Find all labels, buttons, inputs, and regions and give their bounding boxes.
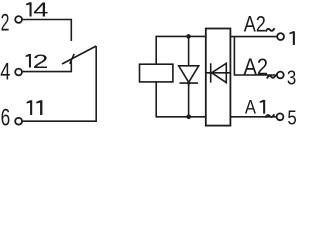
- tilde A2 terminal 3: [267, 75, 276, 78]
- suppressor module box: [206, 29, 231, 126]
- svg-text:2: 2: [1, 10, 10, 37]
- junction dot bottom rail: [186, 115, 191, 120]
- label contact 12 digit 1: [26, 54, 31, 67]
- movable contact arm: [62, 46, 96, 64]
- indicator diode V1 cathode bar: [180, 82, 199, 84]
- tilde A2 terminal 1: [266, 28, 275, 31]
- terminal circle 3: [277, 72, 284, 79]
- terminal circle pin 4: [15, 69, 22, 76]
- svg-text:A: A: [245, 97, 257, 119]
- label contact 11 digit 1b: [36, 100, 42, 115]
- label A1 terminal 5 digit 1: [260, 100, 265, 114]
- terminal circle pin 2: [15, 16, 22, 23]
- label contact 14 digit 1: [26, 2, 31, 16]
- junction dot diode apex: [187, 82, 190, 85]
- relay coil K1: [140, 64, 173, 82]
- wire contact 12 from pin 4: [23, 62, 72, 72]
- label terminal number 1: [289, 31, 294, 45]
- coil bottom lead wire: [156, 82, 206, 117]
- terminal circle 5: [277, 113, 284, 120]
- svg-text:6: 6: [1, 105, 11, 130]
- jumper wire A2 terminals: [234, 37, 276, 75]
- diode V2 triangle: [212, 63, 227, 82]
- wire contact 11 from pin 6: [23, 46, 97, 121]
- svg-text:3: 3: [287, 66, 296, 89]
- wire A1 terminal 5: [230, 116, 276, 118]
- wire contact 14 from pin 2: [23, 20, 72, 42]
- terminal circle pin 6: [15, 118, 22, 125]
- coil top lead wire: [156, 36, 206, 64]
- svg-text:4: 4: [33, 0, 48, 22]
- svg-text:A2: A2: [244, 11, 266, 36]
- svg-text:A2: A2: [244, 54, 269, 80]
- label contact 11 digit 1a: [27, 100, 33, 115]
- junction dot top rail: [186, 34, 191, 39]
- wire A2 terminal 1: [230, 36, 277, 38]
- svg-text:5: 5: [287, 107, 296, 130]
- svg-text:2: 2: [33, 52, 49, 73]
- contact seat tick 12: [70, 54, 74, 64]
- svg-text:4: 4: [0, 59, 10, 86]
- terminal circle 1: [277, 33, 284, 40]
- tilde A1 terminal 5: [265, 114, 274, 117]
- indicator diode V1 triangle: [179, 66, 199, 83]
- indicator diode branch wire: [188, 36, 190, 65]
- in-box wire through diode: [206, 72, 231, 74]
- diode V2 cathode bar: [210, 63, 212, 82]
